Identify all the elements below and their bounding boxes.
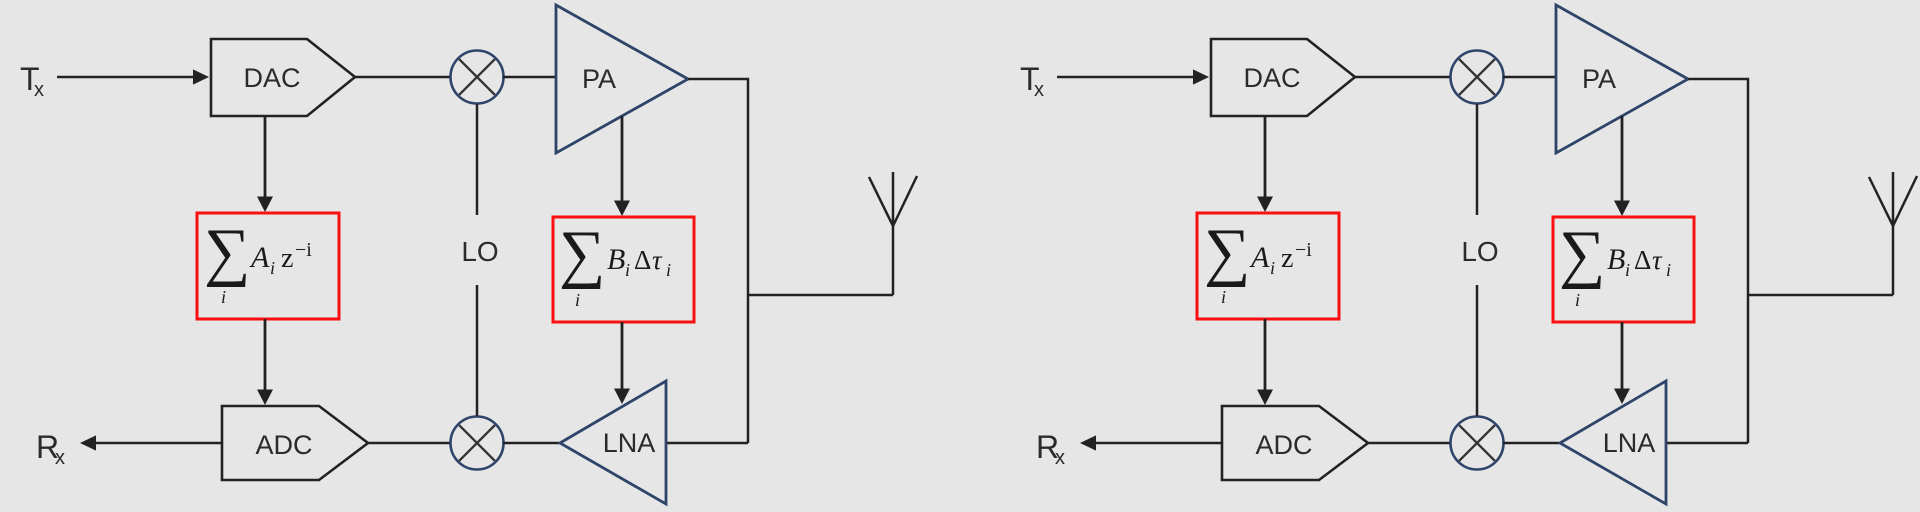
wire filter F1a down to ADC1 with arrowhead [257,319,273,405]
wire M2a to PA2 [1503,76,1556,79]
svg-text:x: x [1034,79,1044,101]
svg-text:∑: ∑ [1559,218,1605,290]
wire trunk to LNA1 input [667,442,748,445]
low-noise amplifier LNA2 [1560,381,1666,504]
wire filter F2b down to LNA2 with arrowhead [1614,322,1630,404]
wire PA2 down to delay filter F2b with arrowhead [1614,116,1630,216]
svg-text:τ: τ [1652,245,1663,275]
svg-text:PA: PA [582,64,616,94]
svg-text:x: x [34,79,44,101]
svg-text:τ: τ [652,245,663,275]
wire M1a to PA1 [503,76,556,79]
antenna ANT1 [869,172,917,295]
delay filter F2b (sum of B_i delta-tau_i) [1553,217,1694,322]
svg-text:z: z [281,243,293,274]
wire ADC2 to Rx output with arrowhead [1080,435,1222,450]
svg-text:i: i [575,290,580,310]
adaptive filter F2a (sum of A_i z^-i) [1197,213,1339,319]
mixer M2a (upconversion) [1451,51,1504,104]
node Tx input label (diagram 2) [1020,61,1044,101]
mixer M1b (downconversion) [451,417,504,470]
svg-text:ADC: ADC [255,430,312,460]
svg-text:A: A [1249,241,1270,274]
svg-text:B: B [607,243,625,276]
wire LO2 to mixer M2b [1476,285,1479,416]
wire DAC2 to mixer M2a [1355,76,1450,79]
svg-text:DAC: DAC [1243,63,1300,93]
svg-text:LNA: LNA [603,428,656,458]
DAC1 digital-to-analog converter [211,39,355,116]
wire LO1 to mixer M1b [476,285,479,416]
ADC2 analog-to-digital converter [1222,406,1368,480]
svg-text:i: i [1625,260,1630,280]
node Rx output label (diagram 1) [36,429,65,469]
svg-text:LO: LO [1461,236,1498,267]
svg-text:Δ: Δ [1634,245,1651,275]
svg-text:i: i [1575,290,1580,310]
wire filter F1b down to LNA1 with arrowhead [614,322,630,404]
wire filter F2a down to ADC2 with arrowhead [1257,319,1273,405]
svg-text:i: i [221,287,226,307]
svg-text:x: x [1055,447,1065,469]
node Tx input label (diagram 1) [20,61,44,101]
svg-text:Δ: Δ [634,245,651,275]
svg-text:z: z [1281,243,1293,274]
wire Tx to DAC2 with arrowhead [1057,69,1209,84]
svg-text:−i: −i [1295,239,1312,261]
svg-text:i: i [270,258,275,278]
wire DAC1 to mixer M1a [355,76,450,79]
wire PA1 down to delay filter F1b with arrowhead [614,116,630,216]
wire trunk to antenna ANT2 [1748,294,1893,297]
svg-text:A: A [249,241,270,274]
wire DAC1 down to adaptive filter F1a with arrowhead [257,116,273,212]
wire trunk to LNA2 input [1667,442,1748,445]
DAC2 digital-to-analog converter [1211,39,1355,116]
low-noise amplifier LNA1 [560,381,666,504]
svg-text:∑: ∑ [1204,216,1250,288]
adaptive filter F1a (sum of A_i z^-i) [197,213,339,319]
mixer M1a (upconversion) [451,51,504,104]
power amplifier PA1 [556,5,688,153]
svg-text:x: x [55,447,65,469]
ADC1 analog-to-digital converter [222,406,368,480]
wire mixer M1b to ADC1 [368,442,450,445]
antenna ANT2 [1869,172,1917,295]
svg-text:B: B [1607,243,1625,276]
svg-text:∑: ∑ [204,216,250,288]
wire trunk to antenna ANT1 [748,294,893,297]
svg-text:PA: PA [1582,64,1616,94]
svg-text:ADC: ADC [1255,430,1312,460]
svg-text:i: i [625,260,630,280]
node Rx output label (diagram 2) [1036,429,1065,469]
wire mixer M2b to ADC2 [1368,442,1450,445]
svg-text:LNA: LNA [1603,428,1656,458]
svg-text:i: i [666,260,671,280]
wire LNA1 to mixer M1b [503,442,561,445]
wire LNA2 to mixer M2b [1503,442,1561,445]
svg-text:i: i [1666,260,1671,280]
power amplifier PA2 [1556,5,1688,153]
wire Tx to DAC1 with arrowhead [57,69,209,84]
wire ADC1 to Rx output with arrowhead [80,435,222,450]
wire mixer M2a to LO2 [1476,104,1479,215]
svg-text:∑: ∑ [559,218,605,290]
delay filter F1b (sum of B_i delta-tau_i) [553,217,694,322]
svg-text:DAC: DAC [243,63,300,93]
svg-text:i: i [1270,258,1275,278]
wire PA1 output to antenna trunk [688,79,748,443]
mixer M2b (downconversion) [1451,417,1504,470]
wire DAC2 down to adaptive filter F2a with arrowhead [1257,116,1273,212]
svg-text:i: i [1221,287,1226,307]
wire PA2 output to antenna trunk [1688,79,1748,443]
svg-text:LO: LO [461,236,498,267]
wire mixer M1a to LO1 [476,104,479,215]
svg-text:−i: −i [295,239,312,261]
